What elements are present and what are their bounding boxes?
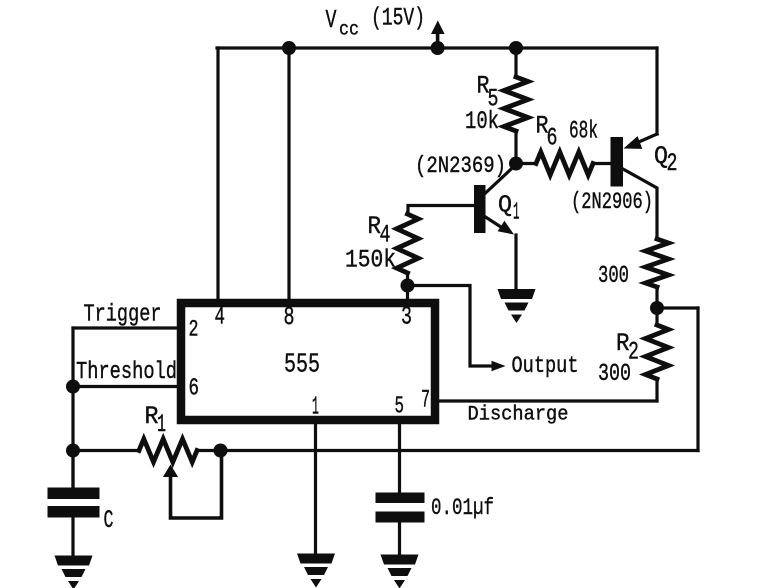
node pin3 junction — [401, 279, 415, 293]
svg-text:5: 5 — [395, 394, 405, 421]
resistor R2 — [646, 325, 669, 379]
wire node to R6 — [516, 162, 536, 165]
svg-text:V: V — [326, 5, 337, 35]
wire pin3 — [406, 286, 409, 300]
R1 wiper arrow — [163, 465, 178, 478]
ground pin5 — [381, 555, 419, 565]
output arrow — [492, 361, 506, 371]
wire Q2 emitter diagonal — [632, 134, 657, 145]
wire 300 to node — [655, 287, 658, 308]
wire node to R2 — [655, 308, 658, 325]
wire Q2 collector diagonal — [623, 169, 657, 239]
wire rail to R5 — [514, 48, 517, 77]
IC U1 555 box — [181, 303, 435, 420]
wire discharge to pin7 — [439, 399, 657, 402]
svg-text:(2N2369): (2N2369) — [415, 153, 506, 179]
svg-text:6: 6 — [547, 124, 558, 153]
svg-text:7: 7 — [421, 386, 430, 415]
svg-text:cc: cc — [339, 19, 359, 41]
capacitor 0.01uf plates — [376, 493, 425, 504]
wire R5 to node — [514, 131, 517, 164]
wire node to R1 — [73, 449, 139, 452]
svg-text:(2N2906): (2N2906) — [571, 189, 653, 215]
svg-text:4: 4 — [215, 303, 226, 332]
svg-text:Output: Output — [512, 353, 579, 379]
node Q1 base node — [509, 157, 523, 171]
svg-text:Q: Q — [498, 193, 512, 220]
svg-text:Trigger: Trigger — [84, 302, 162, 329]
wire node to C — [71, 451, 74, 488]
wire right vertical down — [696, 308, 699, 451]
wire left vertical — [71, 328, 74, 487]
wire pin8 vertical — [287, 48, 290, 299]
svg-text:2: 2 — [667, 149, 678, 178]
svg-text:555: 555 — [284, 350, 320, 380]
resistor R1 — [139, 439, 197, 462]
node R2 junction — [650, 301, 664, 315]
resistor R6 — [536, 152, 593, 175]
node R5 rail junction — [509, 41, 523, 55]
wire C to ground — [71, 518, 74, 556]
wire Q1 collector — [486, 165, 517, 194]
wire Q1 emitter diagonal — [486, 217, 505, 229]
capacitor C plates — [48, 488, 100, 500]
transistor Q2 base bar — [611, 137, 624, 187]
node R1 right junction — [214, 444, 228, 458]
svg-text:1: 1 — [312, 392, 319, 422]
node threshold junction — [66, 380, 80, 394]
resistor R4 — [397, 214, 419, 273]
Q2 emitter arrow (PNP) — [624, 136, 643, 149]
node pin8 rail junction — [282, 41, 296, 55]
wire wiper path — [171, 453, 222, 518]
Vcc arrow — [436, 31, 440, 48]
wire Q1 base to R4 — [408, 206, 474, 215]
wire bottom long horizontal — [222, 449, 698, 452]
svg-text:8: 8 — [284, 303, 295, 332]
wire R1 to junction — [197, 449, 222, 452]
transistor Q1 base bar — [474, 185, 486, 233]
wire trigger — [73, 326, 178, 329]
svg-text:0.01µf: 0.01µf — [431, 495, 494, 522]
svg-text:300: 300 — [598, 361, 631, 388]
node Vcc junction at arrow — [431, 41, 445, 55]
wire cap to ground — [398, 523, 401, 555]
wire R6 to Q2 base — [593, 162, 611, 165]
svg-text:6: 6 — [189, 376, 200, 403]
wire R4 to pin3 node — [406, 273, 409, 286]
ground pin1 — [297, 554, 335, 564]
wire R2 node right — [657, 306, 698, 309]
resistor R5 — [504, 77, 528, 131]
wire R2 to discharge — [655, 379, 658, 401]
node C/R1 junction — [66, 444, 80, 458]
wire Vcc top rail — [217, 46, 657, 49]
svg-text:Discharge: Discharge — [468, 404, 569, 427]
svg-text:300: 300 — [598, 263, 629, 290]
wire pin4 vertical — [216, 48, 219, 299]
svg-text:3: 3 — [401, 303, 412, 332]
wire Q1 emitter to ground — [514, 235, 517, 289]
svg-text:68k: 68k — [569, 117, 598, 146]
resistor 300 (upper) — [646, 239, 669, 287]
svg-text:C: C — [104, 506, 114, 535]
svg-text:2: 2 — [189, 317, 199, 344]
wire Q2 emitter from rail — [655, 48, 658, 134]
ground Q1 emitter — [498, 289, 536, 299]
svg-text:1: 1 — [157, 410, 166, 439]
svg-text:10k: 10k — [465, 107, 499, 136]
Q1 emitter arrow (NPN) — [498, 221, 514, 235]
wire threshold — [73, 385, 178, 388]
svg-text:(15V): (15V) — [371, 4, 425, 33]
svg-text:1: 1 — [513, 200, 520, 227]
svg-text:150k: 150k — [345, 246, 396, 275]
svg-text:Threshold: Threshold — [76, 359, 177, 386]
ground C — [55, 556, 93, 566]
wire pin5 to cap — [398, 424, 401, 493]
wire pin1 to ground — [314, 424, 317, 554]
wire output branch — [408, 286, 495, 367]
